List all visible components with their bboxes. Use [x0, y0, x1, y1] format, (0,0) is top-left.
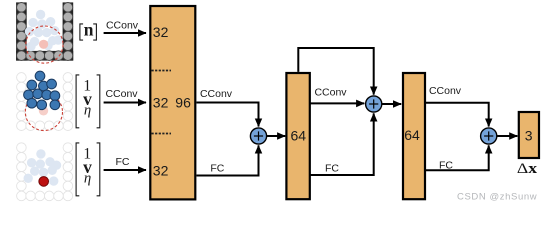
- svg-text:64: 64: [291, 128, 307, 144]
- wire sum1 to bar2: [267, 135, 286, 137]
- svg-text:CConv: CConv: [105, 88, 138, 100]
- svg-text:FC: FC: [116, 156, 130, 168]
- wire CConv bar2 to sum2: [311, 102, 365, 104]
- svg-text:Δx: Δx: [517, 160, 538, 177]
- wire skip bar2 top to sum2: [298, 48, 373, 95]
- sum node 1: [250, 128, 266, 144]
- label vector [1 v eta] (2): [76, 75, 100, 128]
- wire FC bar3 to sum3: [426, 145, 489, 170]
- svg-text:CConv: CConv: [200, 88, 233, 100]
- svg-text:η: η: [84, 171, 91, 187]
- input image 1: boundary particles container: [16, 2, 73, 63]
- output box 3: [519, 112, 539, 158]
- svg-text:FC: FC: [325, 162, 339, 174]
- svg-text:32: 32: [153, 24, 169, 40]
- svg-text:32: 32: [153, 162, 169, 178]
- wire CConv bar1 to sum1: [197, 103, 259, 127]
- sum node 2: [366, 96, 382, 112]
- svg-text:CConv: CConv: [429, 85, 462, 97]
- wire FC bar1 to sum1: [197, 145, 259, 175]
- svg-text:64: 64: [404, 127, 420, 143]
- label [n]: [80, 20, 97, 41]
- feature bar 64 (second): [403, 73, 425, 199]
- svg-text:CConv: CConv: [106, 19, 139, 31]
- svg-text:CConv: CConv: [314, 87, 347, 99]
- svg-text:η: η: [84, 103, 91, 119]
- svg-text:CSDN @zhSunw: CSDN @zhSunw: [457, 192, 537, 203]
- input image 3: single particle: [17, 143, 73, 201]
- svg-text:3: 3: [525, 128, 533, 144]
- svg-text:FC: FC: [210, 162, 224, 174]
- feature bar 64 (first): [286, 73, 309, 199]
- svg-text:96: 96: [175, 94, 191, 110]
- label vector [1 v eta] (3): [76, 143, 100, 196]
- input image 2: fluid particles: [17, 71, 73, 130]
- svg-text:32: 32: [153, 94, 169, 110]
- wire CConv bar3 to sum3: [426, 103, 489, 127]
- wire FC bar2 to sum2: [311, 113, 374, 175]
- svg-text:n: n: [84, 20, 94, 40]
- wire sum2 to bar3: [382, 103, 402, 105]
- feature bar 32/32/32 (96): [150, 6, 195, 199]
- wire sum3 to output box: [497, 135, 518, 137]
- sum node 3: [481, 128, 497, 144]
